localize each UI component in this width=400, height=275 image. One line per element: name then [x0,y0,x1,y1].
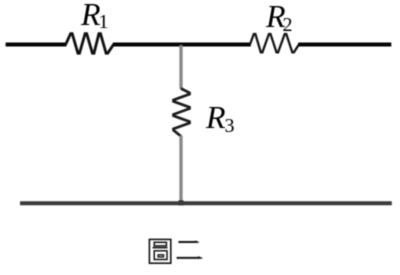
wire vertical lower segment [179,136,182,204]
wire top-middle segment [113,43,251,47]
resistor R2 [250,34,299,52]
wire top-left segment [6,43,67,47]
resistor R3 [174,89,190,137]
ground bus (bottom wire) [20,201,392,205]
resistor R1 [66,34,114,54]
junction node at bottom bus [178,200,183,205]
wire top-right segment [298,43,391,47]
label R1 [81,0,109,33]
label R3 [206,99,235,136]
wire vertical upper segment [179,45,182,89]
label R2 [266,0,293,35]
caption 圖二 [149,239,202,263]
